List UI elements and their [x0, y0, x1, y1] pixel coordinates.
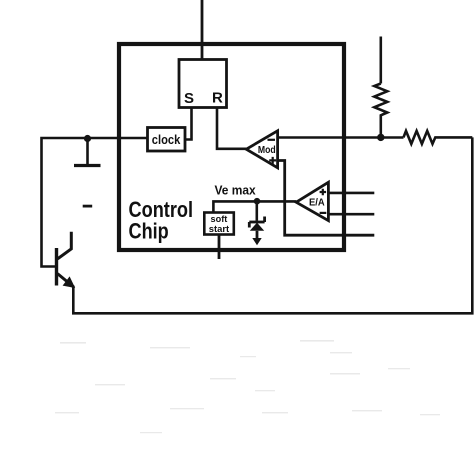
svg-text:Mod: Mod: [258, 145, 276, 156]
svg-text:Ve max: Ve max: [215, 182, 257, 197]
svg-text:Chip: Chip: [129, 218, 169, 243]
svg-text:E/A: E/A: [309, 197, 325, 208]
svg-text:start: start: [209, 224, 230, 235]
svg-text:R: R: [212, 90, 223, 107]
svg-text:clock: clock: [152, 132, 181, 147]
svg-text:S: S: [184, 90, 194, 107]
